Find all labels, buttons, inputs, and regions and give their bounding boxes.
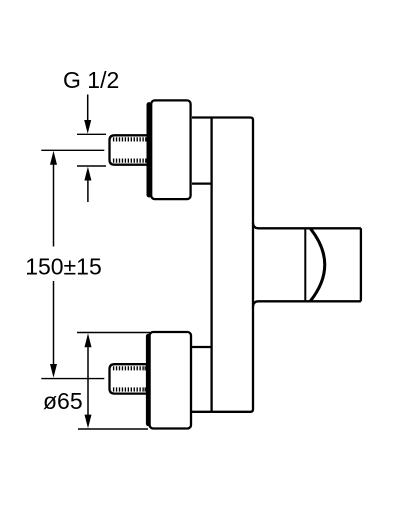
handle knob arc xyxy=(310,228,325,301)
dimension arrow up to thread bottom xyxy=(84,167,91,202)
extension line flange bottom xyxy=(78,428,148,430)
handle stub end line xyxy=(304,228,306,301)
handle cap right edge xyxy=(360,228,362,301)
svg-text:150±15: 150±15 xyxy=(25,254,102,280)
bottom nipple thread hatching xyxy=(114,366,146,391)
dimension line 150±15 lower part with down arrow xyxy=(50,281,57,378)
body left edge xyxy=(210,118,212,412)
top nipple thread hatching xyxy=(114,137,146,162)
extension line upper centerline xyxy=(41,149,104,151)
dimension arrow down to thread top xyxy=(84,95,91,134)
body outline xyxy=(192,118,253,412)
dimension line ø65 with both arrows xyxy=(85,333,92,428)
bottom inlet upper edge xyxy=(191,346,212,348)
top escutcheon cap xyxy=(151,100,190,199)
svg-text:ø65: ø65 xyxy=(43,388,83,414)
svg-text:G 1/2: G 1/2 xyxy=(63,67,119,93)
handle stub bottom edge xyxy=(253,301,361,307)
extension line thread top xyxy=(77,133,106,135)
bottom union nipple thread xyxy=(110,364,148,393)
extension line thread bottom xyxy=(77,165,106,167)
top inlet lower edge xyxy=(192,182,212,184)
bottom escutcheon rim xyxy=(147,335,150,426)
bottom escutcheon cap xyxy=(150,332,191,429)
dimension line 150±15 upper part with up arrow xyxy=(50,151,57,247)
extension line lower centerline xyxy=(41,378,104,380)
handle stub top edge xyxy=(253,223,361,229)
top escutcheon rim xyxy=(147,103,151,197)
extension line flange top xyxy=(77,332,150,334)
top union nipple G1/2 thread xyxy=(110,135,149,164)
